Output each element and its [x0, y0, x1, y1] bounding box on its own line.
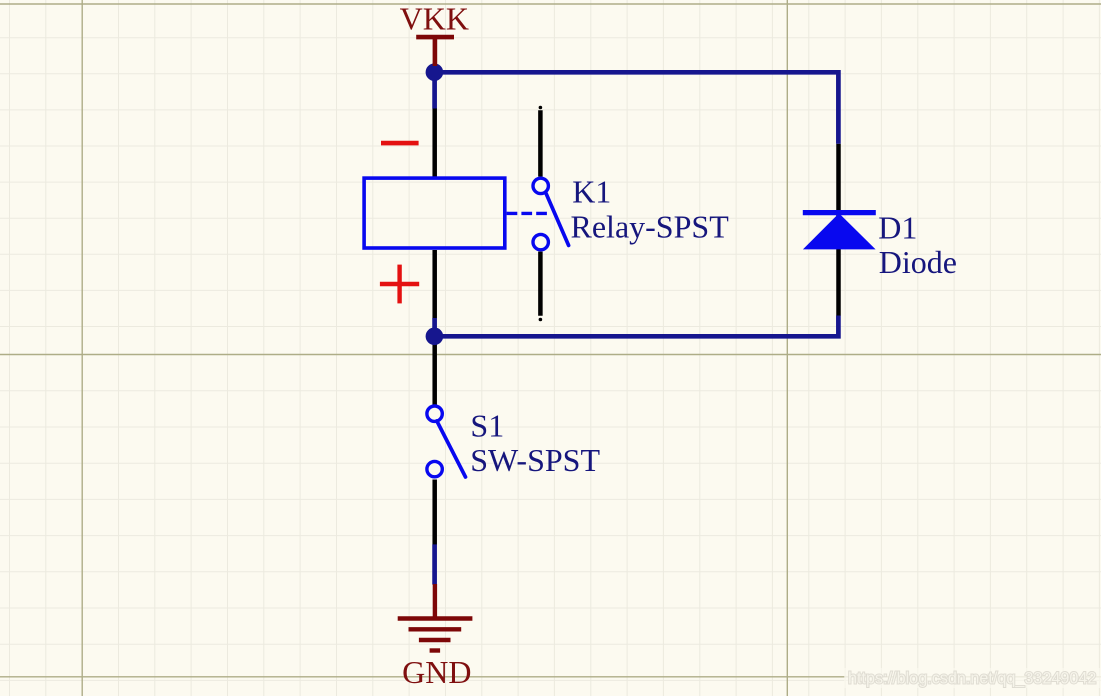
- svg-text:Relay-SPST: Relay-SPST: [571, 209, 730, 245]
- svg-text:https://blog.csdn.net/qq_33249: https://blog.csdn.net/qq_33249042: [848, 670, 1096, 688]
- svg-text:GND: GND: [402, 654, 471, 690]
- svg-text:K1: K1: [572, 174, 611, 210]
- svg-text:VKK: VKK: [400, 1, 469, 37]
- svg-text:Diode: Diode: [879, 244, 957, 280]
- svg-text:D1: D1: [878, 210, 917, 246]
- svg-text:SW-SPST: SW-SPST: [470, 442, 600, 478]
- svg-text:S1: S1: [470, 407, 504, 443]
